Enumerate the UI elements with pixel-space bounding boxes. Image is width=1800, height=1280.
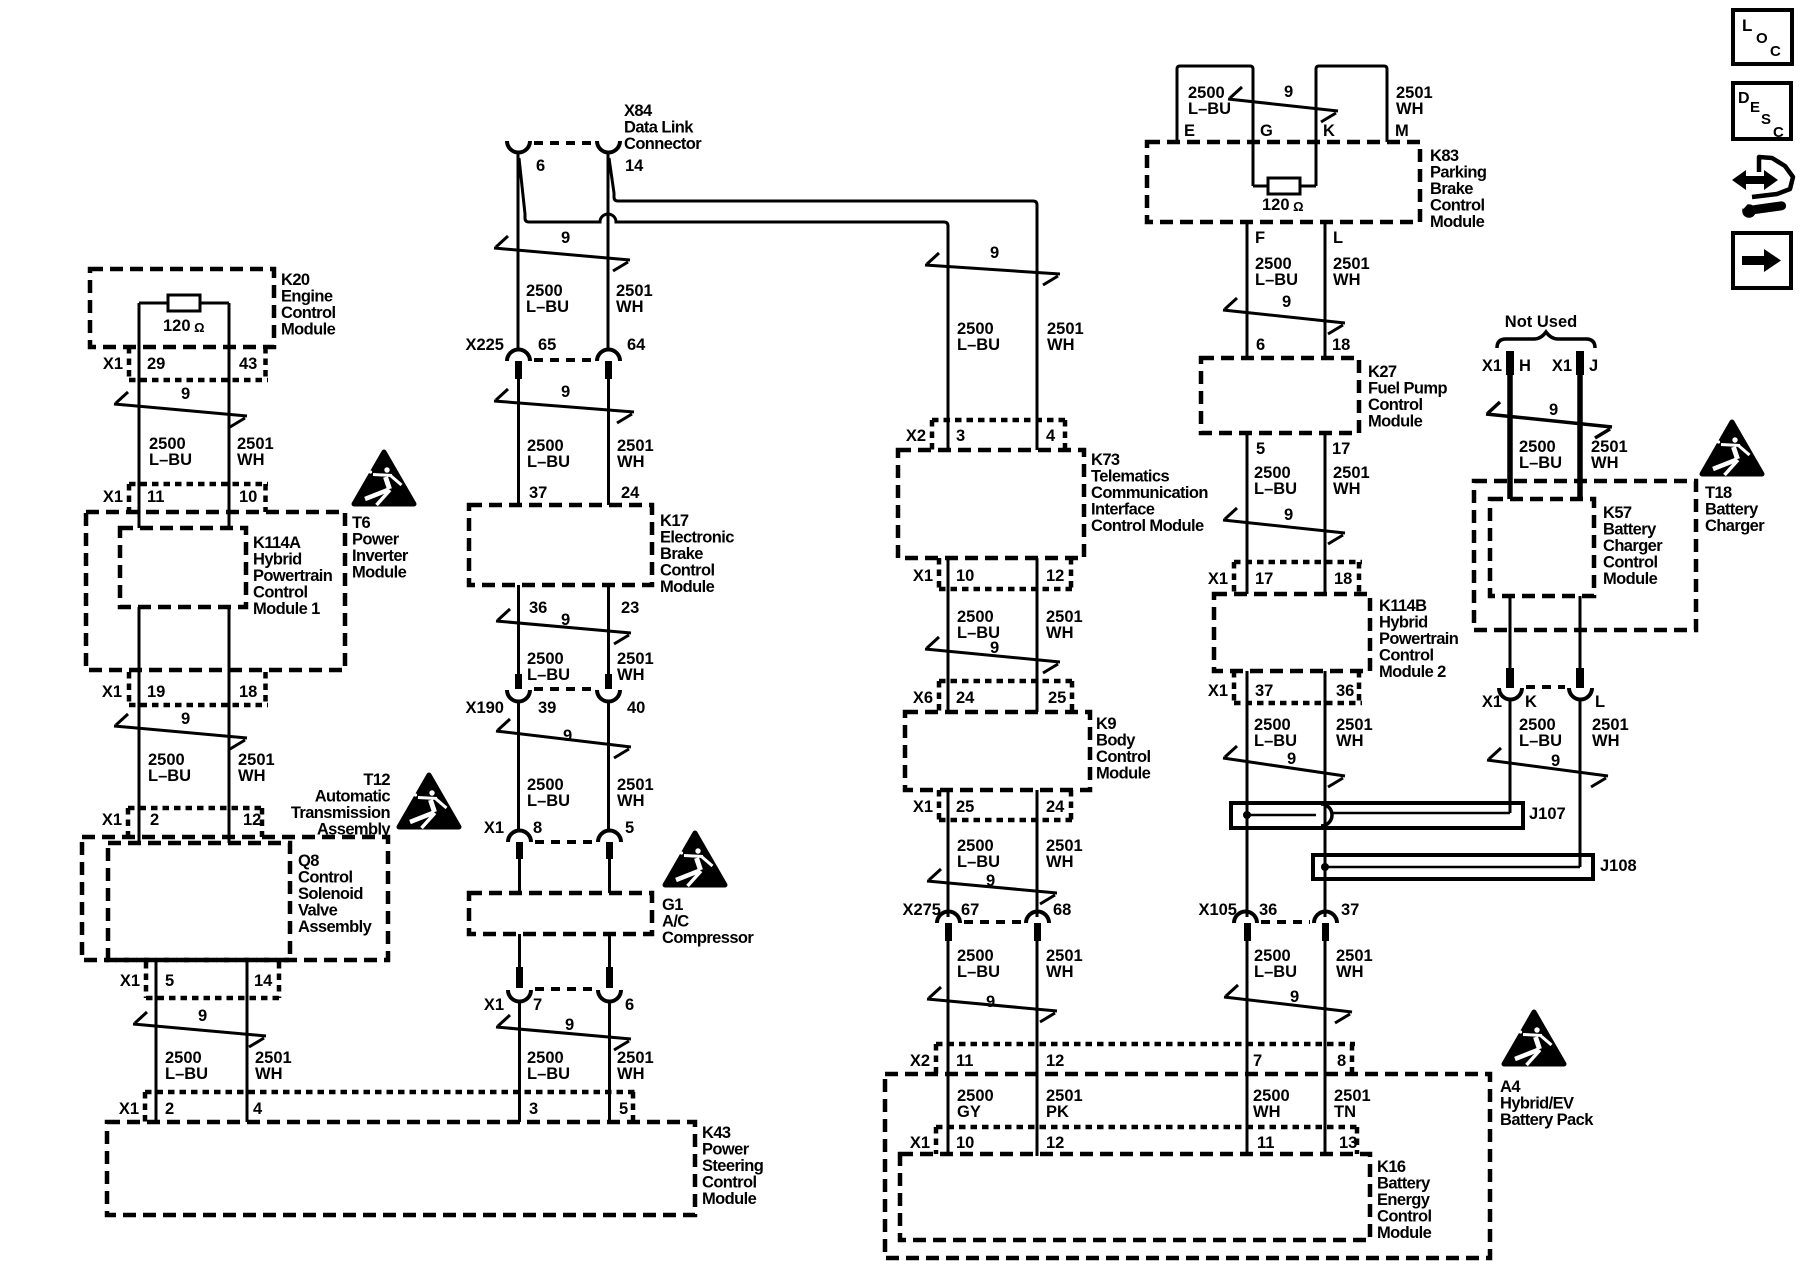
svg-text:64: 64 <box>627 336 646 354</box>
svg-text:2500L–BU: 2500L–BU <box>957 947 1000 981</box>
connector X1 pin J (not used) <box>1552 351 1598 375</box>
svg-text:L: L <box>1595 693 1605 711</box>
module K20 Engine Control Module <box>90 269 336 347</box>
svg-text:9: 9 <box>1549 401 1558 419</box>
svg-text:12: 12 <box>1046 1052 1064 1070</box>
svg-text:2500L–BU: 2500L–BU <box>957 837 1000 871</box>
svg-text:24: 24 <box>621 484 640 502</box>
wire 2500 L-BU X225 to K17 pin37 <box>517 379 520 505</box>
module K83 Parking Brake Control Module <box>1147 142 1486 231</box>
wire 2501 WH G1 to K43 pin5 <box>608 1001 611 1122</box>
svg-text:X1: X1 <box>484 819 504 837</box>
svg-text:9: 9 <box>563 727 572 745</box>
wire K57 pinK down <box>1509 596 1512 668</box>
svg-text:120 Ω: 120 Ω <box>163 317 205 335</box>
wire 2501 WH K73 pin12 to K9 <box>1036 558 1039 712</box>
module T6 Power Inverter Module (outer box) <box>86 512 409 670</box>
connector X1 K57 pins K L <box>1482 668 1605 711</box>
svg-text:5: 5 <box>619 1100 628 1118</box>
svg-text:M: M <box>1395 122 1409 140</box>
wire 2500 L-BU G1 to K43 pin3 <box>518 1001 521 1122</box>
svg-text:9: 9 <box>565 1016 574 1034</box>
svg-text:2500L–BU: 2500L–BU <box>1255 255 1298 289</box>
svg-text:J108: J108 <box>1600 857 1637 875</box>
wire 2501 WH X190 to G1 pin5 <box>607 701 610 831</box>
svg-text:17: 17 <box>1255 570 1273 588</box>
svg-text:12: 12 <box>1046 567 1064 585</box>
connector X275 pins 67 68 <box>902 901 1071 941</box>
warning triangle (G1) <box>665 833 725 886</box>
svg-text:X1: X1 <box>1552 357 1572 375</box>
svg-text:2500L–BU: 2500L–BU <box>1188 84 1231 118</box>
svg-text:L: L <box>1742 16 1752 35</box>
svg-text:2500L–BU: 2500L–BU <box>527 437 570 471</box>
wire 2501 WH K114B pin36 to X105 <box>1324 671 1327 917</box>
twisted pair slash 9 (H/J-K57) <box>1486 401 1612 438</box>
wire 2501 WH K17 pin23 to X190 <box>607 585 610 676</box>
svg-text:23: 23 <box>621 599 639 617</box>
connector X1 row K114A pins 11 10 <box>103 484 268 512</box>
connector X1 row K43 pins 2 4 3 5 <box>119 1092 636 1122</box>
svg-text:10: 10 <box>239 488 257 506</box>
svg-text:X1: X1 <box>913 567 933 585</box>
module K73 Telematics Communication Interface Control Module <box>898 450 1208 558</box>
icon DESC box <box>1733 83 1791 141</box>
svg-text:X1: X1 <box>913 798 933 816</box>
wire K57 pinL down <box>1579 596 1582 668</box>
twisted pair slash 9 (K20-K114A) <box>114 385 247 427</box>
module K114B Hybrid Powertrain Control Module 2 <box>1214 594 1459 681</box>
svg-text:10: 10 <box>956 567 974 585</box>
wire 2501 WH pinJ to K57 <box>1577 373 1583 499</box>
wire 2500 L-BU branch X84 pin6 right to K73 (with hop over pin14 wire) <box>519 158 948 450</box>
wire 2501 WH K20 pin43 to K114A pin10 <box>228 303 231 528</box>
wire 2500 L-BU Q8 pin5 to K43 pin2 <box>155 960 158 1122</box>
wire 2501 WH K27 pin17 to K114B pin18 <box>1324 433 1327 594</box>
svg-text:4: 4 <box>1046 427 1056 445</box>
svg-text:9: 9 <box>1287 750 1296 768</box>
icon bidirectional arrow with wrench <box>1732 157 1793 219</box>
svg-text:68: 68 <box>1053 901 1071 919</box>
svg-text:X1: X1 <box>1482 357 1502 375</box>
svg-text:2500L–BU: 2500L–BU <box>527 776 570 810</box>
svg-text:37: 37 <box>529 484 547 502</box>
svg-text:9: 9 <box>198 1007 207 1025</box>
wire into G1 pin5 <box>608 859 611 893</box>
svg-text:2500L–BU: 2500L–BU <box>957 320 1000 354</box>
svg-text:6: 6 <box>625 996 634 1014</box>
wire 2500 L-BU K114B pin37 to X105 <box>1246 671 1249 917</box>
svg-text:5: 5 <box>165 972 174 990</box>
svg-text:25: 25 <box>1048 689 1066 707</box>
twisted pair slash 9 (X84 branch to K73) <box>925 244 1060 285</box>
svg-text:13: 13 <box>1339 1134 1357 1152</box>
svg-text:2500L–BU: 2500L–BU <box>1519 438 1562 472</box>
svg-text:X1: X1 <box>102 683 122 701</box>
wire 2500 L-BU X275 to K16 pin10 <box>947 941 950 1156</box>
svg-text:9: 9 <box>181 385 190 403</box>
module K16 Battery Energy Control Module (inner box) <box>900 1154 1432 1242</box>
svg-text:E: E <box>1750 99 1760 116</box>
svg-text:9: 9 <box>986 872 995 890</box>
svg-text:40: 40 <box>627 699 645 717</box>
svg-text:2500L–BU: 2500L–BU <box>1519 716 1562 750</box>
warning triangle (A4) <box>1504 1012 1564 1065</box>
svg-text:D: D <box>1738 90 1750 107</box>
icon forward arrow box <box>1733 233 1791 288</box>
wire 2501 WH K9 pin24 to X275 <box>1036 790 1039 917</box>
wire 2500 L-BU K73 pin10 to K9 <box>947 558 950 712</box>
svg-text:39: 39 <box>538 699 556 717</box>
svg-text:6: 6 <box>536 157 545 175</box>
connector X225 pins 65 64 <box>465 336 646 379</box>
wire 2500 L-BU X84 pin6 down to X225 <box>517 153 520 349</box>
twisted pair slash 9 (K27-K114B) <box>1223 506 1345 544</box>
svg-text:67: 67 <box>961 901 979 919</box>
svg-text:J107: J107 <box>1529 805 1566 823</box>
svg-text:36: 36 <box>1336 682 1354 700</box>
wire jumper K83 pin K to pin M (over top) <box>1316 66 1387 186</box>
svg-text:9: 9 <box>561 229 570 247</box>
warning triangle (T18) <box>1702 422 1762 475</box>
svg-text:37: 37 <box>1341 901 1359 919</box>
svg-text:18: 18 <box>1334 570 1352 588</box>
resistor 120 ohm (K20 terminating) <box>139 295 229 335</box>
svg-text:X1: X1 <box>103 488 123 506</box>
svg-text:19: 19 <box>147 683 165 701</box>
module T12 Automatic Transmission Assembly (outer box) <box>82 771 391 960</box>
svg-text:C: C <box>1770 43 1781 60</box>
connector X1 row Q8 pins 2 12 <box>102 808 265 837</box>
wire 2500 L-BU K27 pin5 to K114B pin17 <box>1246 433 1249 594</box>
splice pack J108 <box>1313 855 1637 879</box>
connector X1 row K114A pins 19 18 <box>102 672 268 705</box>
connector X1 row K16 pins 10 12 11 13 <box>910 1127 1360 1154</box>
twisted pair slash 9 (G1-K43) <box>496 1015 631 1050</box>
svg-text:2: 2 <box>150 811 159 829</box>
svg-text:12: 12 <box>1046 1134 1064 1152</box>
svg-text:O: O <box>1756 30 1768 47</box>
svg-text:24: 24 <box>1046 798 1065 816</box>
svg-text:X1: X1 <box>102 811 122 829</box>
wire 2501 WH K57 pinL to J108 <box>1579 699 1582 867</box>
wire 2500 L-BU X190 to G1 pin8 <box>517 701 520 831</box>
svg-text:2500L–BU: 2500L–BU <box>527 650 570 684</box>
svg-text:10: 10 <box>956 1134 974 1152</box>
module K43 Power Steering Control Module <box>107 1122 763 1215</box>
svg-text:9: 9 <box>990 244 999 262</box>
svg-text:X225: X225 <box>465 336 504 354</box>
wire 2500 L-BU K17 pin36 to X190 <box>517 585 520 676</box>
svg-text:11: 11 <box>147 488 164 506</box>
svg-text:9: 9 <box>986 993 995 1011</box>
svg-text:X1: X1 <box>103 355 123 373</box>
wire G1 pin6 down <box>608 934 611 968</box>
svg-text:X105: X105 <box>1198 901 1237 919</box>
wire jumper K83 pin E to pin G (over top) <box>1177 66 1253 186</box>
svg-text:G: G <box>1260 122 1273 140</box>
svg-text:9: 9 <box>1551 752 1560 770</box>
connector X105 pins 36 37 <box>1198 901 1359 941</box>
svg-text:11: 11 <box>1257 1134 1274 1152</box>
resistor 120 ohm (K83 terminating) <box>1253 178 1316 214</box>
svg-text:2500L–BU: 2500L–BU <box>526 282 569 316</box>
svg-text:36: 36 <box>1259 901 1277 919</box>
connector X1 pin H (not used) <box>1482 351 1531 375</box>
svg-text:2500L–BU: 2500L–BU <box>149 435 192 469</box>
connector X84 Data Link Connector <box>507 102 702 175</box>
svg-text:7: 7 <box>533 996 542 1014</box>
svg-text:8: 8 <box>1337 1052 1346 1070</box>
svg-text:5: 5 <box>1256 440 1265 458</box>
wire 2501 WH branch X84 pin14 right to K73 <box>609 158 1037 450</box>
wire G1 pin7 down <box>518 934 521 968</box>
svg-text:17: 17 <box>1332 440 1350 458</box>
svg-text:14: 14 <box>625 157 644 175</box>
svg-text:65: 65 <box>538 336 556 354</box>
wire 2501 WH Q8 pin14 to K43 pin4 <box>246 960 249 1122</box>
twisted pair slash 9 (K73-K9) <box>925 637 1060 673</box>
svg-text:F: F <box>1255 229 1265 247</box>
connector X1 row K114B pins 17 18 <box>1208 562 1362 594</box>
twisted pair slash 9 (X225-K17) <box>494 383 634 423</box>
wire 2500 L-BU pinH to K57 <box>1507 373 1513 499</box>
wire 2500 L-BU K20 pin29 to K114A pin11 <box>138 303 141 528</box>
module A4 Hybrid/EV Battery Pack (outer box) <box>885 1074 1594 1258</box>
module G1 A/C Compressor <box>469 893 754 947</box>
svg-text:X1: X1 <box>1208 570 1228 588</box>
svg-text:X1: X1 <box>484 996 504 1014</box>
svg-text:2500L–BU: 2500L–BU <box>957 608 1000 642</box>
svg-text:9: 9 <box>561 611 570 629</box>
svg-text:X2: X2 <box>906 427 926 445</box>
svg-text:5: 5 <box>625 819 634 837</box>
connector X1 row K20 pins 29 43 <box>103 347 268 380</box>
wire 2500 L-BU K114A pin19 down <box>138 607 141 843</box>
svg-text:9: 9 <box>1282 293 1291 311</box>
twisted pair slash 9 (K83-K27) <box>1223 293 1345 334</box>
svg-text:X1: X1 <box>910 1134 930 1152</box>
module K27 Fuel Pump Control Module <box>1201 358 1447 433</box>
svg-text:2500L–BU: 2500L–BU <box>527 1049 570 1083</box>
twisted pair slash 9 (X190-G1) <box>496 719 631 758</box>
svg-text:Not Used: Not Used <box>1505 313 1577 331</box>
wire 2500 L-BU K9 pin25 to X275 <box>947 790 950 917</box>
twisted pair slash 9 (K114B-X105) <box>1223 746 1345 787</box>
svg-text:12: 12 <box>243 811 261 829</box>
svg-text:E: E <box>1184 122 1195 140</box>
svg-text:X1: X1 <box>1208 682 1228 700</box>
module K114A Hybrid Powertrain Control Module 1 (inner box) <box>120 528 333 618</box>
twisted pair slash 9 (X84-X225) <box>494 229 630 271</box>
svg-text:11: 11 <box>956 1052 973 1070</box>
svg-text:6: 6 <box>1256 336 1265 354</box>
wire 2500 L-BU K57 pinK to J107 <box>1509 699 1512 813</box>
wire 2500 WH X105 to K16 pin11 <box>1246 941 1249 1156</box>
connector X6 row K9 pins 24 25 <box>913 681 1075 712</box>
twisted pair slash 9 (K83 top) <box>1228 83 1338 122</box>
svg-text:29: 29 <box>147 355 165 373</box>
svg-text:2500L–BU: 2500L–BU <box>1254 464 1297 498</box>
svg-text:9: 9 <box>1290 988 1299 1006</box>
svg-text:K: K <box>1525 693 1537 711</box>
svg-text:9: 9 <box>1284 83 1293 101</box>
svg-text:120 Ω: 120 Ω <box>1262 196 1304 214</box>
module K57 Battery Charger Control Module (inner box) <box>1490 499 1663 596</box>
wire 2501 WH K114A pin18 down <box>228 607 231 843</box>
twisted pair slash 9 (X105-A4) <box>1224 985 1352 1023</box>
wire 2501 TN X105 to K16 pin13 <box>1324 941 1327 1156</box>
svg-text:X1: X1 <box>1482 693 1502 711</box>
warning triangle (T6) <box>354 452 414 505</box>
wire 2501 WH X84 pin14 down to X225 <box>607 153 610 349</box>
svg-text:18: 18 <box>239 683 257 701</box>
twisted pair slash 9 (K17-X190) <box>496 609 631 644</box>
connector X1 row Q8 pins 5 14 <box>120 962 282 998</box>
wire into G1 pin8 <box>518 859 521 893</box>
twisted pair slash 9 (K9-X275) <box>927 869 1057 904</box>
module T18 Battery Charger (outer box) <box>1474 481 1765 630</box>
svg-text:2: 2 <box>165 1100 174 1118</box>
twisted pair slash 9 (X275-A4) <box>927 987 1057 1022</box>
connector X2 row K73 pins 3 4 <box>906 420 1068 450</box>
svg-text:2500L–BU: 2500L–BU <box>1254 947 1297 981</box>
svg-text:25: 25 <box>956 798 974 816</box>
svg-text:8: 8 <box>533 819 542 837</box>
connector X190 pins 39 40 <box>465 674 645 717</box>
twisted pair slash 9 (K57-J107/J108) <box>1487 748 1608 787</box>
svg-text:X1: X1 <box>119 1100 139 1118</box>
svg-text:X6: X6 <box>913 689 933 707</box>
wire 2500 L-BU K83 pinF to K27 pin6 <box>1246 222 1249 358</box>
svg-text:9: 9 <box>561 383 570 401</box>
svg-text:X2: X2 <box>910 1052 930 1070</box>
wire 2501 WH X225 to K17 pin24 <box>607 379 610 505</box>
svg-text:2500L–BU: 2500L–BU <box>1254 716 1297 750</box>
svg-text:18: 18 <box>1332 336 1350 354</box>
svg-text:3: 3 <box>956 427 965 445</box>
module Q8 Control Solenoid Valve Assembly (inner box) <box>108 843 373 960</box>
connector X1 row K73 pins 10 12 <box>913 558 1074 589</box>
svg-text:4: 4 <box>253 1100 263 1118</box>
svg-text:X190: X190 <box>465 699 504 717</box>
svg-text:37: 37 <box>1255 682 1273 700</box>
svg-text:S: S <box>1761 111 1771 128</box>
module K9 Body Control Module <box>905 712 1151 790</box>
svg-text:L: L <box>1333 229 1343 247</box>
svg-text:9: 9 <box>990 639 999 657</box>
svg-text:9: 9 <box>181 710 190 728</box>
svg-text:36: 36 <box>529 599 547 617</box>
svg-text:7: 7 <box>1253 1052 1262 1070</box>
wire 2501 WH X275 to K16 pin12 <box>1036 941 1039 1156</box>
svg-text:H: H <box>1519 357 1531 375</box>
svg-text:J: J <box>1589 357 1598 375</box>
warning triangle (T12) <box>399 775 459 828</box>
twisted pair slash 9 (K114A-Q8) <box>114 710 247 749</box>
svg-text:2500L–BU: 2500L–BU <box>148 751 191 785</box>
connector X1 row K114B pins 37 36 <box>1208 671 1362 703</box>
svg-text:24: 24 <box>956 689 975 707</box>
svg-text:X1: X1 <box>120 972 140 990</box>
connector X1 row K9 pins 25 24 <box>913 790 1074 820</box>
icon LOC box <box>1733 10 1792 64</box>
svg-text:C: C <box>1773 124 1784 141</box>
connector X2 row A4 pins 11 12 7 8 <box>910 1044 1355 1074</box>
svg-text:X275: X275 <box>902 901 941 919</box>
connector X1 G1 pins 8 5 <box>484 819 634 859</box>
svg-text:9: 9 <box>1284 506 1293 524</box>
module K17 Electronic Brake Control Module <box>469 505 734 596</box>
brace Not Used <box>1497 332 1595 348</box>
connector X1 G1 pins 7 6 <box>484 967 634 1014</box>
svg-text:2500L–BU: 2500L–BU <box>165 1049 208 1083</box>
svg-text:3: 3 <box>529 1100 538 1118</box>
svg-text:14: 14 <box>254 972 273 990</box>
twisted pair slash 9 (Q8-K43) <box>133 1007 266 1047</box>
svg-text:K: K <box>1323 122 1335 140</box>
splice pack J107 <box>1231 803 1566 828</box>
svg-text:43: 43 <box>239 355 257 373</box>
wire 2501 WH K83 pinL to K27 pin18 <box>1324 222 1327 358</box>
